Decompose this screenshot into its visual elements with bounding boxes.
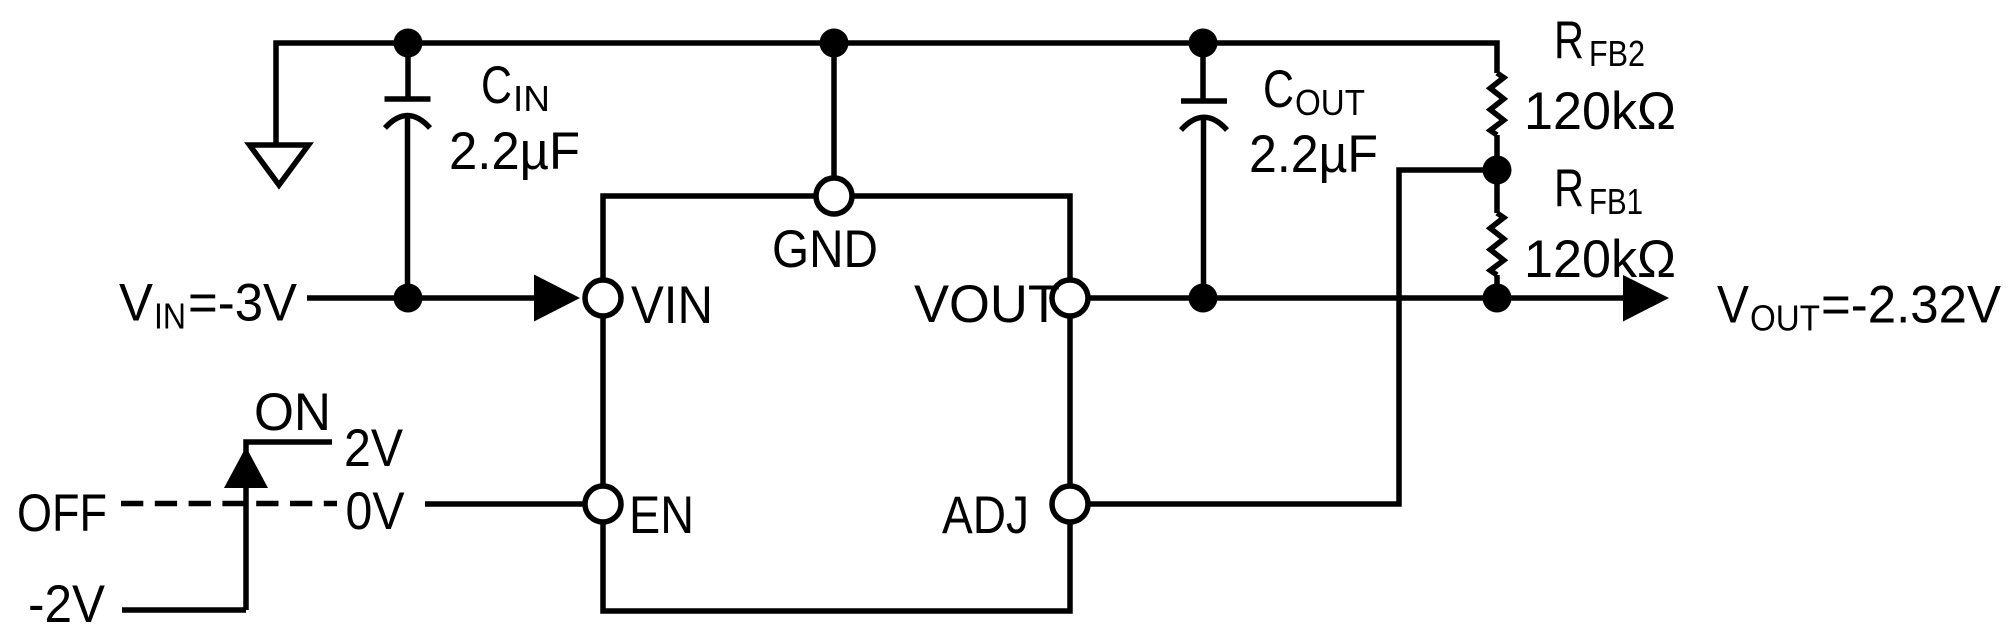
label VIN=-3V — [119, 274, 298, 337]
resistor R_FB2 — [1490, 73, 1504, 170]
svg-text:VIN: VIN — [631, 276, 713, 335]
junction node VOUT-COUT — [1189, 284, 1218, 313]
svg-text:-2V: -2V — [28, 575, 106, 634]
capacitor C_IN — [385, 43, 431, 298]
svg-text:OUT: OUT — [1295, 82, 1365, 123]
wire VIN input — [307, 295, 540, 301]
resistor R_FB1 — [1490, 170, 1504, 298]
wire GND pin stub — [831, 43, 837, 178]
svg-text:2V: 2V — [344, 419, 404, 478]
svg-text:OFF: OFF — [17, 484, 107, 543]
EN waveform -2V level line — [122, 607, 246, 613]
IC U1 body — [603, 196, 1070, 611]
svg-text:2.2µF: 2.2µF — [1249, 125, 1378, 184]
svg-text:=-2.32V: =-2.32V — [1821, 276, 2002, 335]
EN waveform 2V level line — [246, 442, 332, 610]
junction node VIN-CIN — [394, 284, 423, 313]
label C_OUT — [1263, 60, 1365, 123]
pin GND circle — [816, 178, 852, 214]
label R_FB1 — [1554, 159, 1643, 222]
junction node top CIN — [394, 29, 423, 58]
svg-text:2.2µF: 2.2µF — [449, 122, 580, 181]
junction node RFB divider tap — [1483, 156, 1512, 185]
EN waveform rising-edge arrowhead — [224, 447, 268, 488]
junction node top COUT — [1189, 29, 1218, 58]
svg-text:GND: GND — [772, 220, 878, 279]
wire VOUT output — [1088, 295, 1628, 301]
label R_FB2 — [1554, 11, 1645, 74]
svg-text:V: V — [1717, 276, 1750, 335]
svg-text:=-3V: =-3V — [188, 274, 298, 333]
svg-text:120kΩ: 120kΩ — [1524, 230, 1676, 289]
pin VOUT circle — [1052, 280, 1088, 316]
svg-text:C: C — [1263, 60, 1294, 119]
wire top bus — [276, 43, 1497, 145]
svg-text:C: C — [481, 56, 512, 115]
label VOUT=-2.32V — [1717, 276, 2002, 339]
svg-text:FB1: FB1 — [1589, 181, 1643, 222]
wire EN input — [425, 501, 585, 507]
svg-text:EN: EN — [629, 486, 694, 545]
junction node RFB1-VOUT — [1483, 284, 1512, 313]
svg-text:IN: IN — [154, 296, 186, 337]
svg-text:R: R — [1554, 159, 1584, 218]
pin VIN circle — [585, 280, 621, 316]
wire ADJ feedback tap — [1088, 170, 1497, 504]
svg-text:VOUT: VOUT — [914, 275, 1060, 334]
pin ADJ circle — [1052, 486, 1088, 522]
arrowhead VOUT output — [1623, 275, 1669, 322]
EN waveform OFF dashed line — [121, 501, 337, 507]
pin EN circle — [585, 486, 621, 522]
svg-text:0V: 0V — [346, 482, 406, 541]
svg-text:120kΩ: 120kΩ — [1524, 82, 1676, 141]
junction node top GND — [820, 29, 849, 58]
svg-text:IN: IN — [513, 78, 550, 119]
capacitor C_OUT — [1181, 43, 1227, 298]
svg-text:ON: ON — [254, 383, 331, 442]
arrowhead VIN input — [534, 275, 580, 322]
svg-text:R: R — [1554, 11, 1584, 70]
svg-text:FB2: FB2 — [1589, 33, 1645, 74]
svg-text:OUT: OUT — [1750, 298, 1820, 339]
svg-text:V: V — [119, 274, 154, 333]
svg-text:ADJ: ADJ — [942, 486, 1029, 545]
label C_IN — [481, 56, 550, 119]
ground — [250, 145, 309, 185]
